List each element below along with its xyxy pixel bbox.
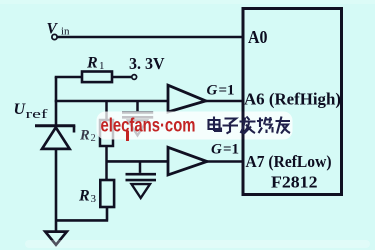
svg-text:R: R [78, 188, 90, 205]
resistor R3 [100, 180, 114, 207]
top light band [0, 0, 375, 4]
label 3.3V [129, 54, 165, 73]
capacitor C1 plates [122, 113, 153, 118]
svg-text:1: 1 [99, 60, 105, 72]
svg-text:G: G [207, 83, 218, 99]
op-amp U2 [168, 147, 207, 175]
watermark hanzi zi [223, 119, 239, 134]
wire node Uref vertical [55, 77, 58, 126]
svg-text:G: G [211, 142, 222, 158]
svg-text:ref: ref [26, 106, 49, 121]
op-amp U1 [168, 85, 206, 112]
watermark hanzi dian [209, 117, 222, 132]
zener diode D1 cathode bar [35, 126, 75, 133]
wire Vin to A0 [57, 36, 243, 39]
svg-text:F2812: F2812 [271, 173, 318, 192]
watermark hanzi you [276, 117, 291, 134]
wire IC left edge over watermark [242, 112, 245, 140]
wire node B to op-amp U2 input [107, 160, 169, 163]
svg-text:=1: =1 [223, 142, 239, 158]
resistor R1 [82, 72, 112, 83]
svg-text:A0: A0 [248, 27, 268, 47]
zener diode D1 triangle [42, 127, 70, 148]
svg-text:R: R [86, 55, 98, 72]
wire R1 to 3.3V [112, 76, 131, 78]
label G=1 op-amp U1 [207, 83, 235, 99]
wire U2 output to A7 [207, 160, 243, 163]
svg-text:R: R [79, 128, 90, 144]
wire U1 output to A6 [206, 100, 243, 103]
label Uref [14, 101, 49, 121]
watermark red mark [126, 131, 129, 142]
resistor R2 [100, 120, 113, 146]
ground G1 [45, 232, 67, 245]
terminal Vin [52, 34, 57, 39]
IC F2812 box [243, 9, 342, 195]
capacitor C1 stub [136, 101, 139, 111]
pin label A6 RefHigh [244, 90, 341, 109]
pin label A0 [248, 27, 268, 47]
label R1 [86, 55, 105, 73]
svg-text:A6 (RefHigh): A6 (RefHigh) [244, 90, 341, 109]
capacitor C2 plates [126, 174, 157, 180]
wire Uref to op-amp U1 input [55, 100, 168, 103]
svg-text:3. 3V: 3. 3V [129, 54, 165, 73]
svg-text:elecfans·com: elecfans·com [101, 115, 196, 137]
svg-text:A7 (RefLow): A7 (RefLow) [246, 152, 332, 171]
label R3 [78, 188, 97, 206]
label R2 [79, 128, 96, 145]
watermark hanzi shao [257, 117, 273, 133]
wire node A to R2 [105, 101, 108, 120]
pin label A7 RefLow [246, 152, 332, 171]
label G=1 op-amp U2 [211, 142, 239, 158]
svg-text:=1: =1 [219, 83, 235, 99]
label Vin [47, 21, 71, 38]
watermark hanzi fa [240, 117, 256, 134]
terminal 3.3V [132, 75, 137, 80]
watermark bottom band [25, 240, 370, 248]
wire zener anode to ground [55, 149, 58, 232]
ground G3 [132, 184, 151, 198]
svg-text:V: V [47, 21, 59, 38]
wire R2 to R3 [105, 146, 108, 180]
wire Uref to R1 [55, 76, 82, 79]
wire R3 bottom to ground rail [56, 207, 108, 220]
svg-text:2: 2 [91, 133, 96, 144]
ground G2 [128, 120, 147, 135]
watermark text elecfans.com [101, 115, 196, 137]
label F2812 [271, 173, 318, 192]
svg-text:3: 3 [91, 193, 97, 205]
watermark box [97, 112, 293, 140]
capacitor C2 stub [139, 161, 142, 173]
